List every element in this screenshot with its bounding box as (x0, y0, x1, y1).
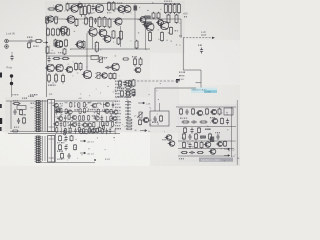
resistor R40 (129, 80, 132, 87)
resistor R13 (80, 4, 83, 16)
resistor R25 (152, 12, 155, 19)
transistor Q12 (69, 5, 78, 13)
resistor R117 (64, 128, 66, 134)
transistor Q18 (66, 16, 75, 24)
box bias network U1 (91, 56, 99, 60)
label col a3 (121, 88, 124, 89)
label +24 br (205, 129, 211, 130)
resistor R113 (106, 121, 108, 127)
resistor R92 (126, 125, 133, 127)
wire link 99 (105, 116, 107, 122)
transistor Q11 (54, 4, 63, 12)
resistor R58b (221, 118, 224, 125)
resistor R31 (47, 28, 50, 36)
label speck bt1 (57, 142, 64, 143)
arrow signal Ls (140, 130, 147, 132)
resistor R64 (183, 133, 186, 140)
wire bus x92 (92, 33, 94, 49)
transistor Q27 (75, 41, 84, 48)
transistor Q28 (145, 23, 155, 31)
label speck q15 (117, 3, 122, 4)
label value 78 (74, 109, 78, 110)
capacitor C81 (125, 104, 131, 106)
label row a5 (115, 96, 120, 97)
resistor R39 (60, 41, 63, 48)
resistor R56b (218, 108, 221, 115)
resistor R50 (113, 73, 116, 80)
resistor R80 (125, 80, 132, 82)
resistor R95 (139, 119, 142, 126)
label value 68 (88, 102, 91, 103)
transistor Q27 (211, 118, 218, 123)
resistor R27 (169, 3, 172, 14)
resistor R52 (23, 117, 26, 124)
resistor R15 (88, 4, 91, 15)
label row b0 (115, 101, 120, 102)
ecap C29 (201, 136, 206, 138)
label PHONO (12, 94, 18, 95)
resistor R53 (160, 115, 163, 122)
resistor R57 (182, 121, 190, 123)
label speck in2 (33, 46, 39, 47)
transistor Q26 (59, 26, 68, 34)
resistor R82 (125, 87, 132, 89)
transistor Q92 (71, 115, 77, 119)
resistor R94 (82, 115, 84, 121)
label speck s1b (31, 107, 34, 108)
arrow bias lower (80, 152, 86, 154)
resistor R61b (59, 144, 62, 151)
jack J3 (10, 74, 13, 77)
transistor Q29 (168, 141, 175, 147)
wire right horiz (183, 69, 201, 71)
label speck br2 (179, 158, 184, 159)
capacitor C105 (69, 122, 72, 128)
capacitor C98 (101, 115, 104, 121)
resistor R23b (103, 16, 106, 27)
wire out dashed (183, 37, 212, 39)
trimmer VR2 (95, 73, 101, 79)
resistor R69 (181, 152, 188, 154)
capacitor C25c (190, 128, 193, 134)
label speck b5 (22, 114, 26, 115)
label value 63 (65, 102, 68, 103)
wire link 71 (102, 102, 104, 108)
wire vol link a (42, 100, 44, 131)
resistor R63 (61, 153, 64, 160)
resistor R106 (102, 125, 104, 131)
wire rail y56 (46, 55, 99, 57)
wire jack drop2 (11, 85, 13, 97)
label speck relay (152, 122, 158, 123)
wire left drop (10, 101, 12, 129)
wire bt colline (55, 134, 57, 162)
wire bus x87 (86, 33, 88, 70)
capacitor C19 (123, 81, 126, 87)
resistor R32 (52, 28, 55, 36)
resistor R110 (93, 122, 95, 128)
resistor R39 (119, 80, 122, 87)
label speck b3 (13, 100, 18, 101)
capacitor C119 (74, 128, 77, 134)
label row b5 (115, 116, 120, 117)
label speck b6 (22, 98, 27, 99)
resistor R36 (54, 39, 57, 47)
resistor R83 (97, 109, 99, 115)
resistor R101 (64, 130, 66, 136)
resistor R43 (120, 30, 123, 40)
resistor R42 large (95, 41, 98, 53)
transistor Q20 (98, 29, 107, 37)
wire br rail2 (178, 148, 234, 150)
label speck r37 (132, 56, 137, 57)
label row b2 (115, 107, 121, 108)
capacitor C28 (188, 134, 191, 140)
resistor R65 (195, 133, 198, 140)
label speck q28 (162, 139, 166, 140)
potentiometer box VR-A lower (48, 136, 55, 163)
label speck bt4 (57, 159, 63, 160)
capacitor C126 (105, 128, 108, 134)
wire mid rail (46, 18, 181, 20)
resistor R122 (88, 128, 90, 134)
wire vol link b (44, 100, 46, 131)
label KB-3 (28, 96, 34, 97)
label speck q32 (57, 67, 61, 68)
wire band rail3 (36, 162, 95, 164)
wire vol link d (44, 136, 46, 161)
wire link 111 (98, 123, 100, 129)
label row c2 (115, 125, 120, 126)
resistor R29 (178, 3, 181, 14)
label row c0 (115, 119, 121, 120)
label row a2 (115, 87, 121, 88)
wire right drop2 (200, 70, 202, 88)
scan mark 3 (0, 118, 2, 124)
resistor R86 (110, 109, 112, 115)
label speck s1 (31, 103, 34, 104)
label value 96 (92, 115, 95, 116)
wire br rail3 (178, 155, 228, 157)
wire +B rail top (66, 3, 180, 5)
transistor Q19 (87, 28, 97, 36)
transistor Q35 (65, 66, 73, 72)
transistor Q108 (81, 123, 87, 127)
resistor R21 (85, 17, 88, 25)
resistor R104 (80, 129, 82, 135)
resistor R124 (96, 127, 98, 133)
wire band rail2 (8, 133, 120, 135)
resistor R100 (110, 115, 112, 121)
label speck rowA2 (107, 12, 111, 13)
wire right edge line (236, 100, 238, 165)
resistor R24c (117, 37, 120, 45)
transistor Q97 (93, 116, 99, 120)
label footer strip (199, 158, 233, 163)
transistor Q24 (156, 20, 164, 26)
wire rch drop (11, 52, 13, 60)
inductor coil bar lower (35, 136, 42, 163)
inductor coil bar upper (35, 101, 42, 132)
transistor Q69 (91, 103, 97, 107)
resistor R125 (101, 128, 103, 134)
resistor R11 (48, 8, 56, 10)
wire bus x120 (120, 26, 122, 47)
wire relay up (159, 103, 161, 111)
label speck q29r (175, 30, 179, 31)
capacitor C27 (67, 153, 70, 159)
label speck phono (179, 35, 182, 36)
transistor Q14 (94, 4, 104, 12)
transistor Q21 (113, 18, 122, 25)
resistor R58c (184, 127, 187, 134)
transistor Q16 (123, 6, 132, 13)
capacitor C2 (10, 55, 13, 61)
transistor Q13 (76, 3, 82, 8)
resistor R93 (126, 128, 133, 130)
capacitor C107 (78, 122, 81, 128)
wire tone loop top (155, 87, 196, 89)
node out arrowhead (212, 37, 215, 39)
resistor R83 (125, 90, 132, 92)
resistor R121 (83, 128, 85, 134)
resistor R79 (79, 108, 81, 114)
wire jack drop (11, 78, 13, 83)
node dark blob br (210, 137, 214, 143)
wire right band low (176, 126, 236, 128)
resistor R104 (64, 121, 66, 127)
resistor R39c (132, 89, 135, 97)
resistor R45 (149, 31, 152, 41)
resistor R20 (75, 18, 78, 26)
label value 105 (88, 129, 91, 130)
transistor Q102 (53, 122, 59, 126)
resistor R38b (139, 57, 142, 67)
label row c3 (115, 128, 121, 129)
resistor R107 (85, 129, 87, 135)
resistor R52b (20, 109, 23, 116)
capacitor C74 (55, 109, 58, 115)
resistor R56 (206, 108, 209, 115)
transistor Q26b (210, 109, 217, 114)
resistor R35 (62, 74, 65, 84)
capacitor C83 (125, 110, 131, 112)
transistor Q106 (71, 122, 77, 126)
transistor Q123 (89, 129, 95, 133)
label row b3 (115, 110, 121, 111)
resistor R70b (224, 141, 227, 148)
transistor Q31b (216, 142, 222, 147)
node blob top (134, 6, 138, 11)
node corner mark (176, 79, 180, 83)
resistor R91 (68, 114, 70, 120)
transistor Q29 (159, 21, 169, 29)
label speck out5 (184, 16, 187, 17)
label row a3 (115, 90, 121, 91)
jack J2 outer (5, 45, 9, 49)
transistor Q61 (52, 103, 58, 107)
transistor Q89 (57, 116, 63, 120)
resistor R41 (121, 90, 124, 97)
label row a1 (115, 84, 121, 85)
capacitor C25 (191, 120, 197, 123)
wire band bottom (10, 131, 114, 133)
transistor Q87 (112, 110, 118, 114)
jack J1 outer (5, 39, 9, 43)
resistor R44 (135, 40, 138, 49)
resistor R31b (53, 57, 61, 59)
transistor Q31 (45, 64, 54, 72)
resistor R80 (83, 108, 85, 114)
resistor R48 (79, 62, 82, 70)
transistor Q85 (103, 109, 109, 113)
scan mark 4 (0, 127, 2, 131)
label value 81 (88, 109, 91, 110)
resistor R46 (161, 31, 164, 41)
resistor R25b (157, 12, 160, 19)
potentiometer box VR-A upper (48, 100, 55, 132)
transistor Q72 (104, 102, 110, 106)
transistor Q17 (46, 16, 54, 22)
wire input L (9, 40, 29, 42)
capacitor C21 electrolytic (200, 48, 203, 54)
capacitor C14 electrolytic (146, 22, 152, 24)
label value 102 (98, 130, 101, 131)
capacitor C12 (94, 18, 97, 24)
transistor Q23 (142, 22, 149, 27)
label value 88 (55, 116, 58, 117)
resistor R95 (87, 115, 89, 121)
capacitor C11 (91, 5, 94, 11)
wire band mid (56, 111, 114, 113)
resistor R34 (55, 73, 58, 83)
resistor R24 (108, 18, 111, 28)
resistor R35 (67, 28, 70, 36)
resistor R70 (197, 152, 204, 154)
label speck bt3 (105, 159, 110, 160)
label value 62 (60, 103, 63, 104)
resistor R17 (112, 1, 115, 11)
label speck bt2 (57, 151, 63, 152)
capacitor C26 (64, 136, 67, 142)
resistor R23 (98, 16, 101, 27)
label speck in1 (27, 37, 33, 38)
resistor R76 (65, 108, 67, 114)
transistor Q22 (139, 17, 147, 23)
transistor Q32 (54, 64, 63, 72)
resistor R12 (66, 3, 69, 12)
resistor R33 (48, 73, 51, 83)
trimmer VR3 (137, 112, 143, 118)
label value 70 (97, 103, 100, 104)
label speck rr3 (179, 79, 184, 80)
capacitor C85 (125, 116, 131, 118)
resistor R24b (112, 30, 115, 39)
trimmer VR1 (98, 57, 104, 63)
resistor R42 (127, 90, 130, 97)
resistor R90 (126, 119, 133, 121)
box out filter (224, 108, 233, 115)
resistor R41 (82, 40, 85, 48)
label texture band (57, 101, 115, 133)
label row a4 (115, 93, 121, 94)
label speck vr1 (104, 57, 107, 58)
resistor R120 (78, 127, 80, 133)
resistor R67 (83, 102, 85, 108)
resistor R81 (125, 84, 132, 86)
node bt dot (94, 159, 96, 161)
capacitor C127 (109, 128, 112, 134)
wire band low (56, 121, 114, 123)
resistor R26 (164, 3, 167, 14)
resistor R61 (59, 135, 62, 142)
wire link 116 (60, 128, 62, 134)
label speck b4 (14, 127, 19, 128)
wire vol link c (42, 136, 44, 161)
capacitor C31 (189, 151, 195, 154)
transistor Q15 (117, 6, 126, 13)
resistor R18 (46, 16, 49, 24)
box relay RY1 (150, 111, 169, 126)
label row c1 (115, 122, 121, 123)
resistor R32b (62, 57, 70, 59)
transistor Q109 (86, 123, 92, 127)
arrow out C-3 (224, 155, 230, 157)
label speck bias1 (117, 88, 124, 89)
label speck rc2 (210, 117, 215, 118)
resistor R84 (125, 93, 132, 95)
capacitor C22 (17, 118, 20, 124)
resistor R38 (46, 46, 49, 54)
capacitor C26b (64, 145, 67, 151)
label speck bias2 (118, 97, 125, 98)
capacitor C20 (132, 91, 135, 97)
label speck bt5 (64, 132, 69, 133)
transistor Q30 (204, 142, 211, 148)
capacitor C24 (185, 109, 188, 115)
label row b4 (115, 113, 121, 114)
wire bus x135 (134, 4, 136, 40)
resistor R55 (192, 108, 195, 115)
label speck rc3 (205, 129, 210, 130)
resistor R39b (132, 79, 135, 87)
label speck b2 (30, 94, 37, 95)
resistor R34 (62, 28, 65, 36)
label value 82 (92, 109, 96, 110)
label speck bank (164, 1, 172, 2)
resistor R47 (75, 62, 78, 70)
arrow out C-2 (224, 148, 230, 150)
resistor R19 (55, 16, 58, 24)
capacitor C80 (125, 101, 131, 103)
resistor R68b (200, 142, 203, 149)
capacitor C31b (216, 134, 219, 140)
label texture global (47, 1, 239, 161)
label speck mtop (46, 53, 55, 54)
capacitor C82 (125, 107, 131, 109)
capacitor C25b (226, 119, 229, 125)
resistor R93 (79, 115, 81, 121)
resistor R63b (74, 144, 77, 151)
resistor R22 (90, 16, 93, 27)
transistor Q41 (142, 117, 149, 122)
box input filter (17, 106, 26, 110)
capacitor C16 (47, 57, 50, 63)
wire tone loop left (154, 88, 156, 111)
resistor R54 (180, 108, 183, 115)
label col a2 (121, 82, 124, 83)
capacitor C23 (153, 116, 156, 122)
